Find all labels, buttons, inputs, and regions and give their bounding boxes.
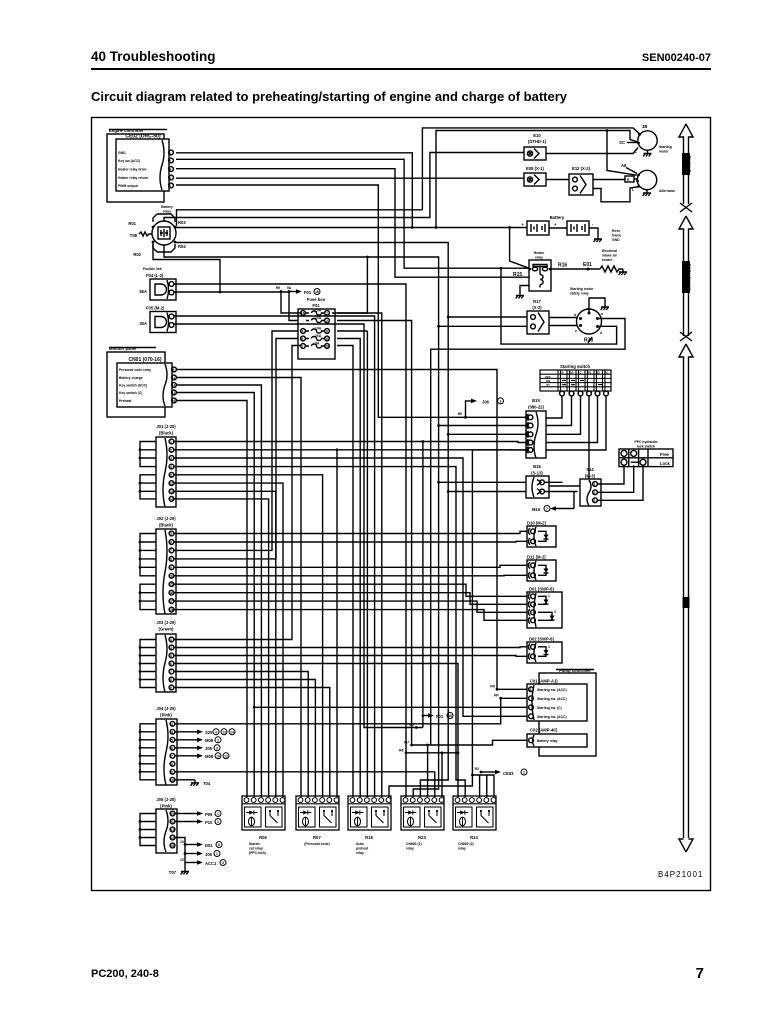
J04 left bus stubs [139,724,156,780]
wire CE02 pin3 to heater relay pin2 [176,169,529,278]
svg-text:Auto: Auto [356,842,364,846]
svg-text:14: 14 [170,836,174,840]
wire B15 pin3 left joining trunk x448.2 [447,433,526,436]
connector CE02 (DRC-50) [116,134,173,192]
junction connector J04 (J-20) (Pink) [156,706,177,785]
wire J03 pin6 to D02 pin1 [174,680,315,798]
J05 left bus stubs [139,814,156,846]
PPC hydraulic lock switch [619,440,673,467]
svg-text:1: 1 [170,440,172,444]
wire J02 pin4 up to fuse row5 left [174,339,298,559]
wire SC feed from battery line [435,131,638,229]
wire B16 to S14 and M16 arrow [545,482,578,491]
svg-text:Starting motor: Starting motor [570,287,594,291]
junction R6 bus and drop to R24 pin1 [399,748,458,797]
wire J02 pin3 up to fuse row4 left [174,331,298,550]
svg-text:T07: T07 [169,870,177,875]
svg-text:14: 14 [172,384,176,388]
wire J01 pin8 down to R06 pin4 [174,499,269,797]
svg-text:11: 11 [325,337,329,341]
svg-text:relay: relay [163,210,171,214]
svg-text:15: 15 [169,583,173,587]
svg-text:1: 1 [217,820,219,824]
svg-text:1: 1 [326,312,328,316]
svg-text:ST: ST [546,383,550,387]
wire E12 pin1 to alternator R terminal [593,178,638,181]
wire J01 pin2 to B15 pin5 with branch to R07 pin6 [174,448,526,797]
relay R18 auto preheat relay [348,796,391,855]
wire CN01 pin3 down to R06 pin3 [176,385,261,797]
svg-text:5: 5 [171,738,173,742]
wire J04 pin9 to CE03 junction [175,771,435,773]
svg-text:1: 1 [216,852,218,856]
svg-text:c: c [586,307,588,311]
svg-text:10: 10 [180,840,184,844]
wire safety relay a to bus line [431,319,625,746]
svg-text:cut relay: cut relay [249,847,263,851]
svg-text:(Black): (Black) [159,431,174,436]
battery relay [128,205,186,257]
svg-text:PR: PR [494,694,499,698]
wire F05 pin2 to F01 lower arrow via bottom bus [174,324,423,728]
svg-text:E08 (X-1): E08 (X-1) [526,166,545,171]
svg-text:E10: E10 [533,133,541,138]
svg-text:a: a [601,312,603,316]
svg-text:10A: 10A [315,327,322,331]
J01 left bus stubs [139,442,156,499]
svg-text:16: 16 [169,591,173,595]
wire J02 pin8 to D10 pin1 [174,593,527,605]
svg-text:Free: Free [660,452,670,457]
svg-text:PPC hydraulic: PPC hydraulic [635,440,658,444]
diode connector D10 (M-2) [527,521,556,548]
connector C01 (AMP-A1) [527,679,587,722]
svg-text:PWM output: PWM output [118,184,139,188]
svg-text:B4P21001: B4P21001 [658,870,703,879]
svg-text:3: 3 [169,184,171,188]
svg-text:R04: R04 [178,244,186,249]
svg-text:J01 (J-20): J01 (J-20) [156,424,176,429]
wire fuse row2 right to C02 battery relay [337,321,527,746]
svg-text:Personal code relay: Personal code relay [119,368,151,372]
relay R23 CN800(1) relay [401,796,444,851]
connector B15 (080-22) [526,398,546,458]
right bus arrow segment 3 [679,344,693,852]
svg-text:Heater relay return: Heater relay return [118,176,148,180]
wire J01 pin5 down to R07 pin4 [174,475,323,797]
svg-text:R1: R1 [588,371,592,375]
svg-text:15: 15 [170,844,174,848]
svg-text:4: 4 [169,168,171,172]
svg-text:(PPC lock): (PPC lock) [249,851,266,855]
svg-text:8: 8 [171,762,173,766]
right bus arrow segment 1 [679,124,693,212]
svg-text:PR: PR [490,685,495,689]
wire E08 to E12 [546,179,569,181]
fusible link F04 (L-2) [139,267,176,300]
wire J04 pin1 up to C01 pin2 [175,698,527,724]
svg-text:SEN00240-07: SEN00240-07 [642,52,711,64]
svg-text:F01: F01 [436,714,444,719]
svg-text:Fusible link: Fusible link [143,267,162,271]
svg-text:2: 2 [170,448,172,452]
connector R17 (X-2) [527,299,549,334]
svg-text:10: 10 [170,812,174,816]
svg-text:E12 (X-2): E12 (X-2) [572,166,591,171]
bus label BODY (MAIN) (seg2, black) [682,261,691,293]
svg-text:frame: frame [612,234,621,238]
svg-text:16: 16 [172,399,176,403]
svg-text:5: 5 [170,654,172,658]
wire battery tap to heater relay (diagonal) [508,226,529,268]
wire fuse row3 right down to R18 pin3 [337,331,367,797]
wires starting switch to B15 [546,396,606,450]
svg-text:L: L [632,188,634,192]
svg-text:3: 3 [170,638,172,642]
svg-text:R01: R01 [128,221,136,226]
wire branch fuse row1 right up to R02 line [332,256,369,313]
svg-text:(Personal code): (Personal code) [304,842,329,846]
relay R24 CN800(2) relay [453,796,496,851]
svg-text:13: 13 [172,391,176,395]
svg-text:C: C [579,371,581,375]
wire junction starting motor to alternator [606,129,637,175]
svg-text:motor: motor [659,150,669,154]
wire B15 pin5 to R18 pin6 [389,450,526,797]
wire J02 pin5 down to R07 pin5 [174,565,527,567]
svg-text:B: B [561,371,563,375]
svg-text:7: 7 [170,549,172,553]
svg-text:BR: BR [569,371,573,375]
svg-text:5A: 5A [315,342,320,346]
svg-text:J04 (J-20): J04 (J-20) [156,706,176,711]
svg-text:BODY (MAIN): BODY (MAIN) [686,264,691,291]
svg-text:J03 (J-20): J03 (J-20) [156,620,176,625]
svg-text:R16: R16 [558,263,567,269]
fuse row 4 (20A) [301,334,330,341]
junction M7 [404,741,413,747]
svg-text:7: 7 [696,965,704,982]
svg-text:1: 1 [594,483,596,487]
svg-text:lock switch: lock switch [637,445,655,449]
svg-text:11: 11 [169,473,173,477]
svg-text:D01 (SWP-8): D01 (SWP-8) [529,587,555,592]
svg-text:F01: F01 [312,303,320,308]
svg-text:Starting: Starting [659,145,672,149]
junction and drop to R24 pins [471,774,494,797]
svg-text:(S-13): (S-13) [531,471,543,476]
svg-text:13: 13 [222,730,226,734]
alternator [621,163,676,196]
svg-text:1: 1 [548,645,550,649]
svg-text:55A: 55A [139,289,147,294]
svg-text:B16: B16 [533,464,541,469]
wire CE02 pin2 to heater relay pin1 [176,159,529,268]
svg-text:CN800 (2): CN800 (2) [458,842,474,846]
fusible link F05 (M-2) [139,306,176,333]
drop to R23 pin4 [426,744,429,797]
svg-text:F05 (M-2): F05 (M-2) [146,306,165,311]
svg-text:11: 11 [172,376,176,380]
svg-text:6: 6 [170,541,172,545]
connector E12 (X-2) [569,166,593,195]
wire J03 pin2 to D01 pin1 [174,646,527,649]
svg-text:12: 12 [224,754,228,758]
battery 1 [522,215,565,235]
svg-text:CN800 (1): CN800 (1) [406,842,422,846]
svg-text:R18: R18 [365,835,373,840]
fuse row 3 (10A) [301,327,330,334]
svg-text:8: 8 [218,843,220,847]
wire battery relay R03 to battery [175,227,527,229]
svg-text:30A: 30A [139,321,147,326]
svg-text:T04: T04 [203,781,211,786]
svg-text:10: 10 [170,778,174,782]
svg-text:5: 5 [222,861,224,865]
svg-text:E01: E01 [583,262,592,268]
wire J01 pin7 down to R06 pin5 [174,491,276,797]
svg-text:relay: relay [535,256,543,260]
J05 pin14 branch arrows D01 J05 ACC1 and ground T07 [169,838,226,876]
wire CN01 pin5 down to R06 pin1 [176,401,247,798]
header rule [91,68,711,70]
svg-text:17: 17 [169,600,173,604]
svg-text:3B: 3B [642,124,647,129]
svg-text:J05: J05 [205,746,213,751]
svg-text:10: 10 [169,574,173,578]
svg-text:6: 6 [326,330,328,334]
svg-text:16: 16 [301,312,305,316]
wire J03 pin3 to D01 pin2 [174,655,527,658]
svg-text:safety relay: safety relay [570,292,589,296]
svg-text:R23: R23 [418,835,426,840]
junction connector J05 (J-20) (Pink) [156,797,177,853]
J05 right arrows P09 P10 [175,811,221,826]
wire F05 pin1 down to R18 pin4 [174,316,375,797]
svg-text:b: b [574,313,576,317]
svg-text:R6: R6 [399,748,403,752]
svg-text:10: 10 [216,754,220,758]
svg-text:3: 3 [170,457,172,461]
svg-text:8: 8 [302,337,304,341]
wire B15 pin2 left joining trunk x438.6 [437,424,526,427]
svg-text:4: 4 [170,646,172,650]
svg-text:(Pink): (Pink) [160,804,172,809]
svg-text:R03: R03 [178,220,186,225]
connector S14 (M-3) [580,467,601,506]
relay R06 starter cut relay (PPC lock) [242,796,285,855]
svg-text:Heater: Heater [534,251,545,255]
J04 right side arrows S25 M09 J05 M08 T04 [175,729,235,759]
svg-text:13: 13 [169,490,173,494]
svg-text:(Green): (Green) [159,627,174,632]
diode connector D02 (SWP-8) [527,637,562,664]
J02 left bus stubs [139,534,156,610]
svg-text:2: 2 [217,738,219,742]
wire heater feed down to safety relay d [500,267,617,344]
svg-text:9: 9 [170,686,172,690]
wire battery relay contact to trunk x422 [177,210,423,226]
wire CE02 pin4 to E08 [176,177,524,179]
svg-text:D02 (SWP-8): D02 (SWP-8) [529,637,555,642]
svg-text:1: 1 [169,151,171,155]
connector C02 (AMP-40) [527,728,587,748]
wire J02 pin6 down to R07 pin2 [174,574,527,577]
wire CE02 pin1 GND down to battery line [176,153,414,229]
svg-text:2: 2 [326,319,328,323]
svg-text:R06: R06 [259,835,267,840]
svg-text:8: 8 [170,557,172,561]
battery ground wire to frame [589,228,621,242]
svg-text:preheat: preheat [356,847,369,851]
svg-text:Key switch (ACC): Key switch (ACC) [119,384,147,388]
svg-text:Fuse box: Fuse box [307,297,326,302]
wire J01 pin6 down to R06 pin6 [174,483,283,797]
svg-text:C01 (AMP-A1): C01 (AMP-A1) [530,679,558,684]
heater relay R15 [513,251,551,291]
svg-text:9A: 9A [287,286,292,290]
svg-text:4: 4 [170,465,172,469]
wire J01 pin1 to B15 pin4 [174,442,526,443]
svg-text:8: 8 [170,678,172,682]
svg-text:F01: F01 [304,290,312,295]
svg-text:R9: R9 [276,286,280,290]
starting motor safety relay [570,287,609,344]
pump controller outer box [539,668,596,756]
svg-text:GND: GND [612,238,620,242]
svg-text:Reve.: Reve. [612,229,621,233]
junction connector J02 (J-20) (Black) [156,516,176,614]
diode connector D11 (M-2) [527,555,556,582]
svg-text:relay: relay [458,847,466,851]
svg-text:ENGINE: ENGINE [686,156,691,173]
svg-text:Key switch (C): Key switch (C) [119,391,142,395]
svg-text:Starting sw. (ACC): Starting sw. (ACC) [537,697,567,701]
connector E08 (X-1) [524,166,546,186]
svg-text:16: 16 [315,290,319,294]
monitor panel box [107,346,165,417]
diode connector D01 (SWP-8) [527,587,562,629]
svg-text:F04 (L-2): F04 (L-2) [146,273,164,278]
svg-text:3: 3 [171,722,173,726]
arrow M16 7 [532,492,574,513]
svg-text:Preheat: Preheat [119,399,132,403]
svg-text:PC200, 240-8: PC200, 240-8 [91,968,159,980]
svg-text:7: 7 [171,754,173,758]
svg-text:6: 6 [171,746,173,750]
svg-text:CN01 (070-16): CN01 (070-16) [128,357,161,363]
svg-text:intake air: intake air [602,254,618,258]
svg-text:9: 9 [170,566,172,570]
connector B16 (S-13) [526,464,549,498]
wire battery1 to battery2 [549,227,567,229]
svg-text:14: 14 [169,497,173,501]
wire E12 pin2 loop to alternator L [593,187,638,202]
svg-text:(080-22): (080-22) [528,405,544,410]
fuse box F01 [298,297,335,359]
svg-text:R02: R02 [133,252,141,257]
svg-text:GND: GND [118,151,126,155]
svg-text:9: 9 [173,368,175,372]
svg-text:6: 6 [170,662,172,666]
wire F04 pin2 to F01 arrow and fuse rows [174,292,301,321]
svg-text:P10: P10 [205,820,213,825]
svg-text:J05: J05 [205,852,213,857]
right bus arrow segment 2 [679,216,693,341]
svg-text:CE03: CE03 [503,771,514,776]
wire J02 pin10 to D11 pin1 [174,610,527,621]
svg-text:R6: R6 [458,412,462,416]
engine controller box [107,128,167,202]
svg-text:3: 3 [594,499,596,503]
svg-text:2: 2 [594,491,596,495]
svg-text:Starting sw. (C): Starting sw. (C) [537,706,562,710]
C01 left PR stub labels [490,685,502,700]
svg-text:A8: A8 [621,163,627,168]
svg-text:(X-2): (X-2) [532,305,542,310]
svg-text:B15: B15 [532,398,540,403]
wire battery relay R02 trunk x438.6 to R17 pin2, B16 pin1, R23 pin2 [164,245,527,797]
svg-text:Battery relay: Battery relay [537,739,558,743]
svg-text:18: 18 [169,608,173,612]
svg-text:Circuit diagram related to pre: Circuit diagram related to preheating/st… [91,89,568,104]
svg-text:Lock: Lock [660,461,670,466]
J04 ground T04 [175,780,211,786]
svg-text:D11 (M-2): D11 (M-2) [527,555,546,560]
arrow to F01 16 [276,286,320,295]
wire J02 pin1 down to R18 pin5 [174,531,527,533]
wire fuse row4 right down to R18 pin2 [337,339,360,798]
wire J02 pin9 to D10 pin2 [174,601,527,612]
wire CN01 pin1 to C01 pin1 [176,370,527,690]
svg-text:1: 1 [548,594,550,598]
svg-text:Monitor panel: Monitor panel [109,346,136,351]
svg-text:Heater relay drive: Heater relay drive [118,168,147,172]
wire J02 pin2 up to fuse row3 left [174,540,527,543]
svg-text:(M-3): (M-3) [585,474,596,479]
wire J02 pin7 down to R07 pin3 [174,584,527,596]
junction M2 on bottom bus [409,723,417,729]
junction connector J03 (J-20) (Green) [156,620,176,692]
wire starting switch pin R1 down [549,396,589,486]
svg-text:Alternator: Alternator [659,189,676,193]
svg-text:14: 14 [230,730,234,734]
wire CN01 pin4 down to R06 pin2 and C01 pin3 [176,393,527,798]
svg-text:(DTHD-1): (DTHD-1) [528,139,547,144]
svg-text:9: 9 [302,330,304,334]
arrow CE03 2 [475,767,527,776]
svg-text:Electrical: Electrical [602,249,617,253]
svg-text:heater: heater [602,258,613,262]
wire R17 to safety relay b e [549,318,578,326]
wire fuse row5 right down to R18 pin1 [337,346,353,798]
svg-text:7: 7 [546,507,548,511]
fuse row 2 (10A) [306,316,329,323]
svg-text:7: 7 [302,345,304,349]
svg-text:3: 3 [500,399,502,403]
svg-text:Key sw (ACC): Key sw (ACC) [118,159,140,163]
svg-text:2: 2 [523,771,525,775]
svg-text:20: 20 [325,345,329,349]
arrow F01 16 lower [422,713,454,720]
svg-text:Battery: Battery [550,215,565,220]
svg-text:S14: S14 [586,467,594,472]
svg-text:3: 3 [216,746,218,750]
svg-text:Battery: Battery [161,205,173,209]
svg-text:J02 (J-20): J02 (J-20) [156,516,176,521]
wire trunk x422 top to starting motor B [422,128,639,210]
svg-text:M16: M16 [532,507,541,512]
